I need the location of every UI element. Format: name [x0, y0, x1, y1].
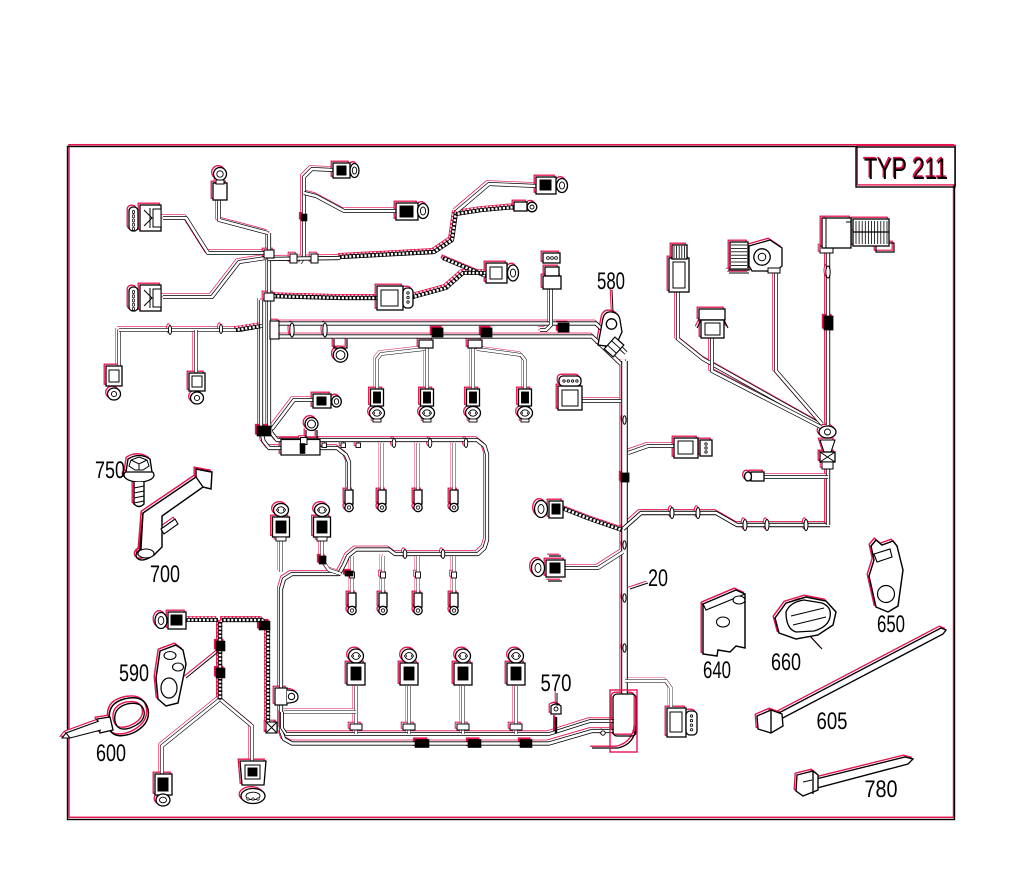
TYP 211 title box	[856, 145, 955, 187]
svg-text:570: 570	[541, 670, 572, 697]
svg-text:700: 700	[150, 561, 180, 588]
svg-text:580: 580	[597, 268, 625, 295]
red junction box at harness end	[610, 690, 637, 752]
svg-text:605: 605	[817, 708, 848, 735]
svg-text:750: 750	[95, 457, 125, 484]
svg-text:640: 640	[703, 657, 731, 684]
svg-text:20: 20	[648, 565, 668, 592]
svg-text:660: 660	[771, 649, 801, 676]
svg-text:600: 600	[96, 740, 126, 767]
red frame line	[69, 145, 954, 818]
red offset copy of artwork	[60, 161, 944, 804]
black artwork	[62, 163, 946, 806]
svg-text:650: 650	[877, 611, 905, 638]
svg-text:TYP 211: TYP 211	[864, 153, 948, 186]
svg-text:590: 590	[119, 660, 149, 687]
black border frame	[68, 147, 955, 820]
part number labels	[95, 268, 905, 803]
svg-text:780: 780	[865, 776, 898, 803]
